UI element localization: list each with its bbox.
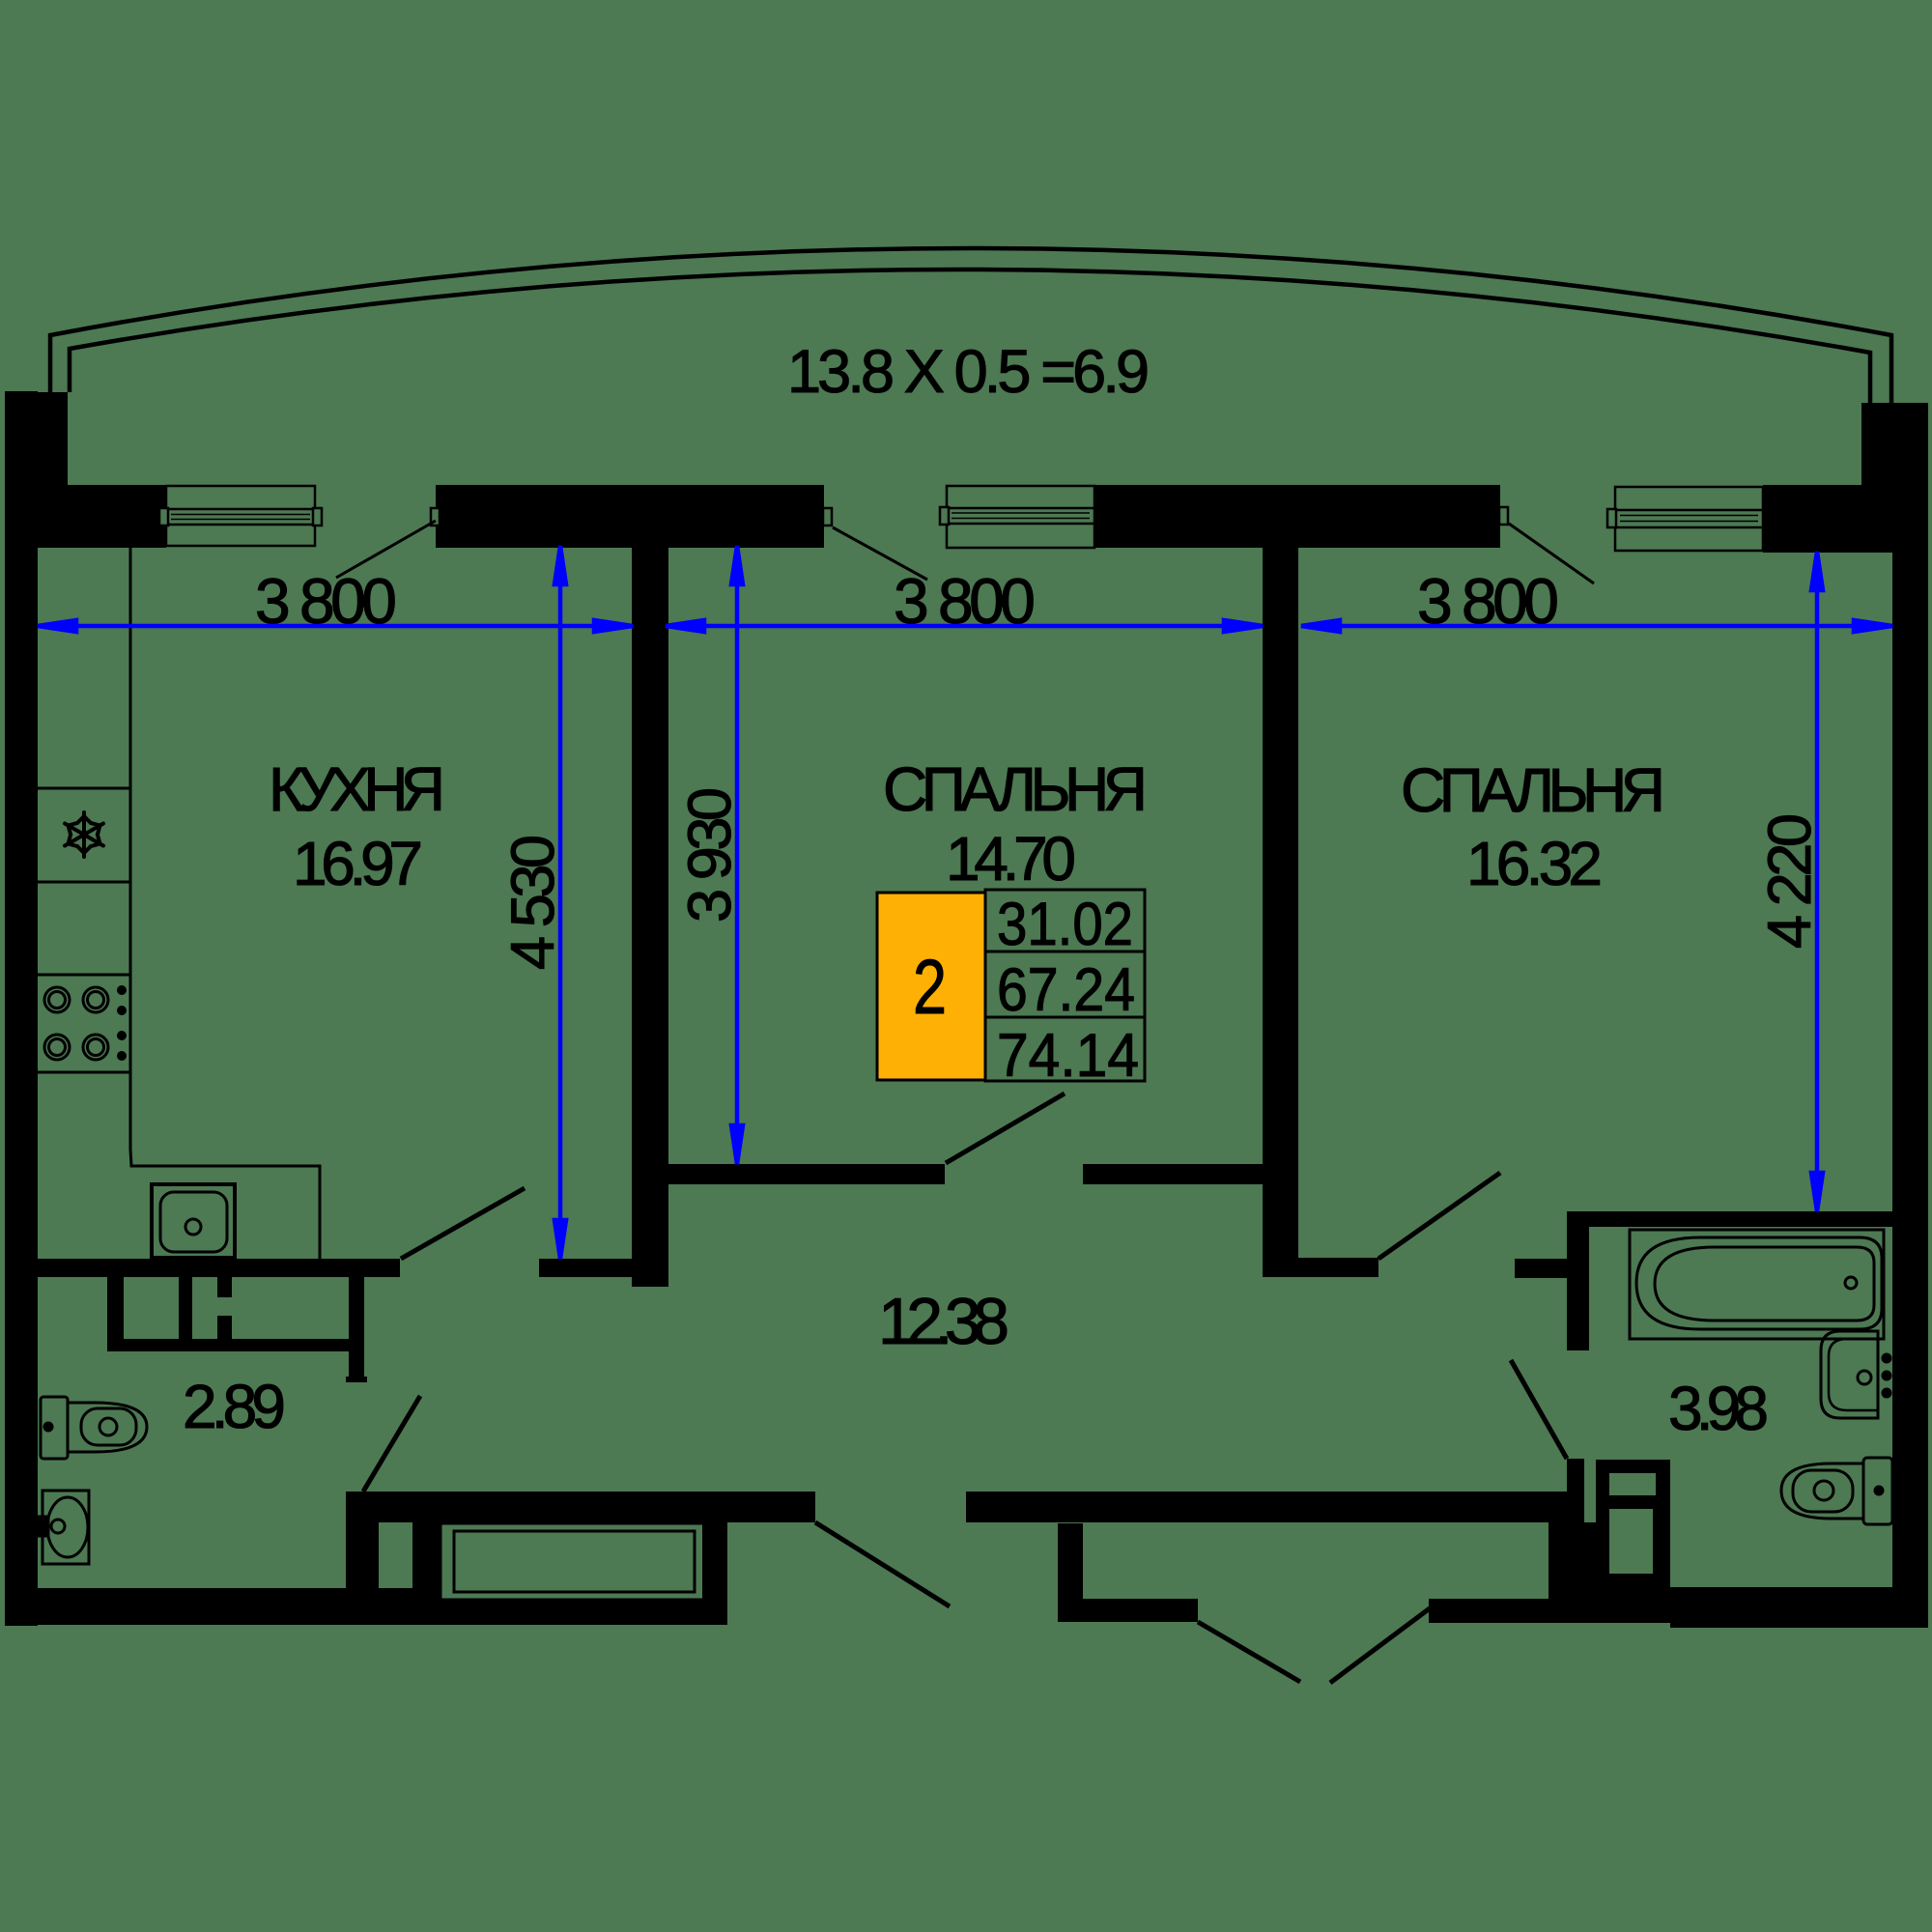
balcony block nubs: [431, 507, 1508, 526]
wall entrance L vertical: [1058, 1523, 1083, 1622]
wall corner block top-left: [5, 392, 68, 548]
duct box white cells: [1609, 1473, 1656, 1574]
dimension 4220 bedroom2 vertical: [1815, 552, 1820, 1211]
wall bottom-left outer band: [5, 1588, 440, 1625]
door leaf bedroom1: [946, 1094, 1065, 1163]
wall bathroom3.98 left upper: [1567, 1227, 1589, 1350]
wall closet left: [346, 1522, 379, 1622]
svg-text:2: 2: [913, 944, 947, 1030]
vanity box: [107, 1277, 354, 1351]
toilet left: [41, 1397, 147, 1459]
svg-text:3 800: 3 800: [255, 565, 397, 637]
duct box black: [1596, 1460, 1670, 1587]
svg-text:2.89: 2.89: [183, 1372, 286, 1441]
wall bathroom2 partition vertical: [349, 1277, 364, 1382]
dimension 4530 kitchen vertical: [558, 546, 563, 1259]
wall closet bottom band: [440, 1600, 727, 1625]
wall entrance L horizontal: [1058, 1599, 1198, 1622]
svg-text:СПАЛЬНЯ: СПАЛЬНЯ: [883, 754, 1148, 824]
door leaf bathroom 2.89: [363, 1396, 420, 1492]
leader right opening: [1509, 524, 1594, 583]
card table: [985, 890, 1145, 1081]
WARDROBE: [440, 1523, 708, 1600]
wall closet right: [702, 1522, 727, 1625]
wall chunk below duct: [1548, 1522, 1670, 1623]
wall interior bedroom1/bedroom2: [1263, 522, 1298, 1277]
door leaf bathroom 3.98: [1511, 1360, 1567, 1459]
toilet right: [1781, 1458, 1892, 1524]
wall bathroom2 partition foot: [346, 1377, 367, 1382]
dimension 3800 kitchen: [38, 624, 633, 629]
wall hall bottom segment B: [966, 1492, 1572, 1522]
door leaf entrance right: [1330, 1605, 1434, 1683]
svg-text:3 930: 3 930: [676, 787, 744, 923]
leader middle opening: [833, 527, 927, 580]
DIMENSIONS (blue): [38, 546, 1892, 1259]
wall corner block top-right: [1861, 403, 1928, 553]
window W2 bedroom1: [940, 486, 1094, 548]
window leader lines: [336, 521, 1594, 583]
wall kitchen bottom left part: [36, 1259, 400, 1277]
kitchen counter outline: [130, 548, 320, 1259]
svg-text:16.32: 16.32: [1466, 829, 1603, 898]
svg-text:3.98: 3.98: [1668, 1374, 1769, 1443]
BATHROOM 2.89 FIXTURES: [39, 1277, 354, 1564]
leader left opening: [336, 521, 436, 578]
dimension 3800 bedroom2: [1301, 624, 1892, 629]
sink right: [1821, 1331, 1890, 1418]
KITCHEN FIXTURES: [38, 548, 320, 1259]
BALCONY ARCS: [50, 248, 1891, 403]
wall top segment kitchen-left: [5, 485, 166, 548]
wall bedroom1 bottom right part: [1083, 1164, 1263, 1184]
wall kitchen bottom right part: [539, 1259, 668, 1277]
balcony railing inner arc: [70, 270, 1870, 403]
balcony door block 2: [1094, 485, 1500, 548]
svg-text:13.8 X 0.5 =6.9: 13.8 X 0.5 =6.9: [787, 338, 1150, 406]
svg-text:3 800: 3 800: [1417, 565, 1559, 637]
svg-text:4 530: 4 530: [499, 835, 567, 970]
svg-text:14.70: 14.70: [946, 824, 1076, 894]
WINDOWS: [159, 486, 1763, 551]
BATHROOM 3.98 FIXTURES: [1630, 1230, 1892, 1524]
svg-text:31.02: 31.02: [997, 891, 1133, 958]
wall bathroom3.98 bottom: [1670, 1587, 1928, 1628]
fridge snowflake: [62, 812, 107, 857]
svg-text:КУХНЯ: КУХНЯ: [269, 754, 445, 824]
DOOR LEAVES (diagonal lines): [363, 1094, 1567, 1683]
balcony railing outer arc: [50, 248, 1891, 403]
wall bedroom1 bottom left part: [668, 1164, 945, 1184]
door leaf corridor: [815, 1522, 950, 1606]
svg-text:67.24: 67.24: [997, 956, 1135, 1024]
window W1 kitchen: [159, 486, 322, 546]
svg-text:3 800: 3 800: [894, 565, 1036, 637]
stove burners: [44, 987, 108, 1060]
svg-text:СПАЛЬНЯ: СПАЛЬНЯ: [1401, 755, 1665, 825]
wall top segment right of window3: [1763, 485, 1861, 553]
wall hall bottom left of bedroom2 door: [1297, 1258, 1378, 1277]
wall bathroom3.98 left lower stub: [1567, 1459, 1584, 1526]
wall bathroom3.98 top: [1567, 1211, 1892, 1227]
sink left: [39, 1491, 89, 1564]
wall left outer: [5, 391, 38, 1626]
stove knobs: [117, 985, 127, 1061]
svg-text:4 220: 4 220: [1756, 813, 1824, 949]
door leaf entrance left: [1198, 1622, 1300, 1682]
wall interior kitchen/bedroom1: [632, 485, 668, 1287]
APARTMENT CARD: [877, 890, 1145, 1090]
wall entrance right stub band: [1429, 1599, 1548, 1623]
window W3 bedroom2: [1607, 487, 1763, 551]
dimension 3930 bedroom1 vertical: [735, 546, 740, 1164]
svg-text:16.97: 16.97: [293, 829, 423, 898]
card orange box: [877, 893, 985, 1080]
svg-text:12.38: 12.38: [878, 1285, 1009, 1358]
kitchen cabinet dividers: [38, 787, 130, 790]
svg-text:74.14: 74.14: [997, 1022, 1139, 1090]
wall closet divider: [412, 1522, 440, 1588]
wall hall bottom right of bedroom2 door: [1515, 1259, 1567, 1278]
dimension 3800 bedroom1: [666, 624, 1263, 629]
wall hall bottom segment A closet top: [346, 1492, 815, 1522]
balcony door block 1: [436, 485, 824, 548]
door leaf bedroom2: [1378, 1173, 1500, 1259]
door leaf kitchen: [401, 1188, 525, 1259]
wall right outer: [1892, 541, 1928, 1628]
kitchen sink: [152, 1184, 235, 1258]
bath tub: [1630, 1230, 1884, 1339]
